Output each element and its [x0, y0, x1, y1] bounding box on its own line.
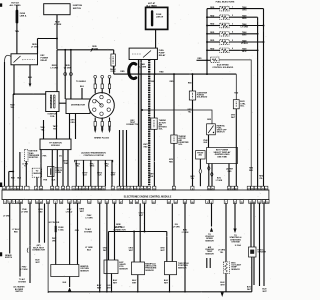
wire MAP ground: [137, 275, 139, 292]
svg-text:SHIELD: SHIELD: [33, 173, 41, 175]
svg-text:RED: RED: [210, 49, 215, 51]
transmission wire 5: [104, 160, 106, 186]
svg-text:CONTROLS SYSTEM: CONTROLS SYSTEM: [83, 155, 103, 157]
svg-text:RED: RED: [120, 71, 125, 73]
svg-text:LT BLU: LT BLU: [66, 211, 73, 213]
EEC test wire 3: [126, 130, 128, 186]
wire ISC return to bus: [219, 60, 251, 186]
thermactor air diverter solenoid box: [171, 135, 177, 143]
EEC test wire 2: [122, 130, 124, 186]
svg-text:6: 6: [232, 48, 233, 50]
svg-text:SENSOR: SENSOR: [231, 269, 240, 271]
ECM module body: [2, 190, 269, 200]
svg-text:LT GRN: LT GRN: [182, 232, 189, 234]
svg-text:RED: RED: [210, 40, 215, 42]
junction gnd 5: [169, 291, 171, 293]
wire octane to ECM: [199, 159, 201, 186]
capacitor terminal dot: [113, 66, 115, 68]
wire MAP vref: [133, 232, 135, 263]
svg-text:SYSTEM: SYSTEM: [84, 231, 92, 233]
svg-text:TAN: TAN: [15, 30, 20, 33]
shield drain hatched line: [148, 60, 150, 186]
svg-text:BLK: BLK: [80, 86, 85, 88]
fuel injector 2 with wires: [206, 15, 258, 20]
wire EGP ground: [111, 274, 113, 292]
transmission wire 4: [97, 160, 99, 186]
ignition switch box: [44, 4, 70, 15]
wire horiz y38.5 to relay branch: [38, 38, 58, 40]
svg-text:MODULE: MODULE: [51, 145, 60, 147]
svg-text:BLK: BLK: [97, 175, 102, 177]
knock ground wire 1: [251, 257, 253, 292]
wire horiz y49.8 run feed: [57, 49, 114, 51]
wire coil secondary to TFI: [56, 112, 58, 140]
svg-text:LT GRN: LT GRN: [51, 68, 59, 70]
relay coil dotted: [22, 59, 35, 61]
knock ground wire 2: [253, 257, 255, 285]
svg-text:SPARK PLUGS: SPARK PLUGS: [94, 136, 109, 139]
svg-text:DISTRIBUTOR: DISTRIBUTOR: [71, 104, 85, 106]
svg-text:SENSOR: SENSOR: [145, 270, 154, 272]
distributor box: [66, 99, 90, 114]
svg-text:SENSOR: SENSOR: [119, 268, 128, 270]
svg-text:CONTROL SOLENOID: CONTROL SOLENOID: [212, 67, 233, 69]
svg-text:CONN: CONN: [55, 172, 61, 174]
fuel injector 3 with wires: [206, 23, 264, 28]
svg-text:BLK: BLK: [83, 175, 88, 177]
svg-text:SWITCH: SWITCH: [15, 291, 23, 293]
svg-text:RELAY: RELAY: [159, 54, 166, 57]
canister purge feed: [192, 74, 194, 91]
junction ignition feed: [56, 38, 58, 40]
ECT sensor box: [223, 262, 229, 273]
svg-text:TO SHIELD: TO SHIELD: [76, 81, 87, 83]
wire VSS: [211, 203, 213, 226]
junction gnd 2: [106, 291, 108, 293]
ground arrow bottom: [221, 292, 224, 297]
svg-text:ORG: ORG: [242, 9, 247, 11]
wire TPS ground: [169, 275, 171, 292]
svg-text:5 15A: 5 15A: [58, 229, 64, 232]
wire pin drop x8.8: [8, 172, 10, 187]
wire riser x113.7 upper: [113, 50, 115, 54]
spark plug wire top 1: [94, 75, 97, 93]
svg-text:LT GRN: LT GRN: [140, 66, 147, 68]
wire TAN from fuse link to EEC power relay: [16, 24, 18, 54]
svg-text:LT BLU: LT BLU: [241, 43, 249, 45]
injector bank bus 2: [257, 17, 259, 186]
fusible link W bar: [151, 10, 153, 26]
ACT stub 1: [206, 258, 208, 268]
binder mark top-left: [0, 3, 2, 6]
fuel injector 6 with wires: [206, 48, 258, 53]
wire sig return 2: [106, 203, 108, 291]
injector bank bus 1: [263, 9, 265, 187]
wire right pair 2: [263, 203, 265, 286]
spark plug wire top 3: [108, 75, 111, 93]
TPS sensor box: [165, 262, 177, 275]
ground arrow relay: [29, 84, 32, 88]
svg-text:ORG: ORG: [75, 230, 80, 232]
wire EGP vref: [108, 232, 110, 261]
MAP sensor box: [132, 262, 145, 275]
thermactor air bypass feed: [153, 74, 155, 118]
wire pin drop x19.9: [19, 152, 21, 186]
svg-text:2: 2: [232, 15, 233, 17]
inline connector diamond octane: [199, 168, 202, 174]
inertia switch contact: [208, 126, 213, 134]
wire RED/LT GRN drop to EEC relay: [37, 39, 39, 55]
radio capacitor box: [111, 54, 116, 66]
spark plug wire top 2: [101, 75, 104, 93]
capacitor element: [112, 57, 114, 64]
svg-text:LT GRN: LT GRN: [3, 216, 10, 218]
svg-text:RED: RED: [210, 15, 215, 17]
svg-text:LT GRN: LT GRN: [91, 49, 99, 51]
starting system arrow: [233, 229, 236, 234]
svg-text:SWITCH: SWITCH: [217, 132, 225, 134]
wire distributor feed A: [64, 50, 66, 99]
wire HEGO ground out: [69, 277, 71, 288]
svg-text:LINK W: LINK W: [156, 17, 163, 19]
svg-text:ORG: ORG: [52, 240, 57, 242]
svg-text:WHT: WHT: [242, 35, 247, 37]
wire self test 2: [44, 203, 46, 242]
fusible link A: [16, 10, 19, 24]
wire canp sol to ECM: [192, 100, 194, 186]
junction gnd 3: [111, 291, 113, 293]
wire VREF riser: [144, 203, 146, 231]
svg-text:WHT: WHT: [111, 175, 116, 177]
EEC test wire 1: [119, 130, 121, 186]
coil left node wire: [13, 93, 46, 95]
junction gnd 6: [184, 291, 186, 293]
idle speed control solenoid box: [211, 57, 219, 63]
relay contact diagonal: [14, 56, 21, 63]
binder mark mid-left: [0, 183, 2, 188]
wire fuel pump feed to inertia switch: [142, 110, 212, 124]
junction vref riser: [144, 231, 146, 233]
wire right pair 1: [259, 203, 261, 286]
junction ISC feed: [206, 59, 208, 61]
thermactor air bypass solenoid box: [151, 118, 157, 129]
svg-text:CONNECTOR: CONNECTOR: [126, 124, 139, 126]
connector circle on wire A: [64, 73, 67, 76]
connector circle on wire B: [69, 73, 72, 76]
svg-text:RED: RED: [242, 18, 247, 20]
svg-text:RED: RED: [159, 72, 164, 74]
knock sensor element: [250, 250, 254, 254]
EEC power relay box: [11, 54, 38, 65]
TFI output wire 5: [67, 150, 69, 187]
heavy harness line pair: [139, 60, 142, 187]
wire fuel pump relay output drop: [154, 60, 156, 75]
spout jumper bar: [50, 168, 52, 175]
svg-text:ADJ: ADJ: [199, 154, 203, 157]
injector left bus x207: [206, 9, 208, 75]
EGP valve position sensor box: [104, 260, 118, 274]
svg-text:GRN: GRN: [207, 119, 212, 121]
svg-text:MONITOR: MONITOR: [29, 157, 39, 159]
spark plug bottom 1: [94, 118, 96, 134]
transmission wire 2: [83, 160, 85, 186]
transmission wire 3: [90, 160, 92, 186]
wire keypower drop 3: [228, 164, 230, 187]
signal return ground bus: [48, 291, 252, 293]
wire TPS vref: [166, 232, 168, 262]
wire riser x113.7 lower: [113, 66, 115, 74]
svg-text:SENSOR: SENSOR: [178, 267, 187, 269]
svg-text:LT GRN: LT GRN: [216, 180, 223, 182]
wire self test output STI: [47, 203, 49, 293]
wire fuse-link-A top stub: [16, 5, 18, 10]
svg-text:5: 5: [232, 40, 233, 42]
svg-text:COND: COND: [110, 71, 116, 73]
svg-text:RED: RED: [210, 24, 215, 26]
EGR solenoid coil: [235, 102, 237, 107]
junction diverter feed: [173, 73, 175, 75]
junction coil left: [13, 93, 15, 95]
svg-text:SENSOR: SENSOR: [80, 270, 89, 272]
svg-text:LT GRN: LT GRN: [241, 26, 249, 28]
ACT stub 2: [209, 258, 211, 268]
spout check connector box: [48, 167, 55, 177]
ISC solenoid coil: [212, 59, 217, 61]
svg-text:COIL: COIL: [50, 116, 56, 118]
wire diverter sol to ECM: [173, 143, 175, 186]
wire shield box drop: [36, 177, 38, 186]
wire left branch horiz: [9, 171, 13, 173]
svg-text:ORG: ORG: [90, 166, 95, 168]
fuel injector 1 with wires: [207, 6, 264, 11]
TFI output wire 2: [51, 150, 53, 187]
wire from fuse box to fuel pump relay: [155, 29, 157, 48]
svg-text:FUEL INJECTORS: FUEL INJECTORS: [216, 2, 235, 4]
fuse box heavy border: [146, 7, 168, 29]
fuel pump relay coil dotted: [132, 53, 141, 55]
svg-text:SENSOR: SENSOR: [205, 240, 214, 242]
connector C blob: [129, 63, 136, 78]
canister purge solenoid box: [189, 91, 195, 100]
junction gnd 4: [137, 291, 139, 293]
wire VPWR corner to EGR: [235, 74, 237, 100]
svg-text:CONNECTOR: CONNECTOR: [32, 250, 45, 252]
splice symbol on run feed: [91, 48, 94, 51]
thermactor diverter feed: [173, 74, 175, 135]
svg-text:LT GRN: LT GRN: [173, 226, 180, 228]
TFI output wire 3: [56, 150, 58, 187]
svg-text:LT GRN: LT GRN: [54, 24, 62, 26]
wire ECT ground: [225, 273, 227, 292]
svg-text:SWITCH: SWITCH: [73, 8, 82, 10]
diverter solenoid coil: [173, 137, 175, 142]
wire relay ground: [29, 65, 31, 84]
wire sig return 1: [99, 203, 101, 291]
wire RED/LT GRN from ignition switch: [56, 15, 58, 50]
coil HT lead to distributor: [59, 102, 66, 104]
wire keypower drop 2: [211, 164, 213, 187]
distributor IDM wire: [75, 114, 77, 140]
svg-text:SOLENOID: SOLENOID: [197, 97, 208, 99]
svg-text:ONE TIME: ONE TIME: [217, 157, 227, 159]
fuel pump relay box: [129, 48, 157, 59]
wire relay loop to left bus: [5, 55, 12, 62]
distributor PIP wire to TFI: [69, 114, 71, 140]
svg-text:LT GRN: LT GRN: [115, 226, 122, 228]
VPWR bus y74: [114, 73, 237, 75]
key power connector box: [207, 148, 238, 164]
wire inertia to fuel pump: [208, 135, 210, 148]
VSS arrow: [210, 227, 213, 232]
svg-text:LT GRN: LT GRN: [31, 47, 39, 49]
wire self test 1: [38, 203, 40, 242]
inertia switch terminal: [213, 132, 214, 133]
diag monitor dashed box: [25, 149, 28, 161]
transmission wire 6: [111, 160, 113, 186]
svg-text:RED: RED: [210, 7, 215, 9]
wire brake switch: [9, 203, 11, 253]
wire RED to ISC solenoid: [197, 59, 211, 61]
wire HEGO ground in: [77, 203, 79, 264]
wire left bus x4.5 down to ECM: [4, 62, 6, 186]
fuel injector 4 with wires: [206, 31, 258, 37]
spark plug bottom 2: [101, 118, 103, 134]
junction relay drop: [154, 73, 156, 75]
fuel pump relay contact: [143, 51, 151, 58]
wire EGP signal: [114, 203, 116, 260]
svg-text:LT GRN: LT GRN: [86, 217, 94, 219]
wire x185 ground: [184, 203, 186, 291]
wire AC clutch: [19, 203, 21, 276]
wire blower switch: [29, 203, 31, 283]
junction fuel pump feed: [141, 109, 143, 111]
junction run feed left: [64, 49, 66, 51]
svg-text:RELAY: RELAY: [41, 59, 48, 62]
ECT thermistor zigzag: [225, 263, 228, 272]
junction tanyel: [12, 171, 14, 173]
svg-text:ELECTRONIC ENGINE CONTROL MODU: ELECTRONIC ENGINE CONTROL MODULE: [124, 196, 172, 198]
TFI output wire 1: [40, 150, 42, 187]
svg-text:BLK: BLK: [87, 249, 92, 251]
distributor cap terminals and rotor: [93, 95, 111, 115]
canp solenoid coil: [192, 93, 194, 98]
svg-text:RED: RED: [14, 231, 19, 233]
wire HEGO signal: [69, 203, 71, 264]
knock sensor wire 2: [253, 203, 255, 247]
spark plug bottom 3: [108, 118, 110, 134]
svg-text:LT GRN: LT GRN: [21, 269, 28, 271]
svg-text:ALL TIMES: ALL TIMES: [10, 4, 22, 7]
wire diag monitor drop 1: [25, 161, 27, 186]
fuse 5 link: [55, 225, 57, 232]
wire fuse to HEGO heater: [55, 203, 57, 225]
TFI output wire 4: [62, 150, 64, 187]
wire distributor feed B: [70, 50, 72, 99]
svg-text:SENSOR: SENSOR: [258, 252, 267, 254]
svg-text:RED: RED: [198, 58, 203, 60]
svg-text:HOT IN RUN: HOT IN RUN: [49, 222, 60, 224]
svg-text:SENSOR: SENSOR: [205, 253, 214, 255]
ignition coil box: [46, 92, 59, 112]
svg-text:BLK: BLK: [28, 77, 33, 79]
distributor cap circle: [89, 93, 115, 119]
svg-text:SWITCH: SWITCH: [5, 257, 13, 259]
svg-text:RED: RED: [210, 32, 215, 34]
junction canp feed: [192, 73, 194, 75]
junction vref map: [133, 231, 135, 233]
self test bracket: [27, 248, 28, 253]
EGR control solenoid box: [233, 100, 239, 109]
wire ECT feed: [225, 203, 227, 262]
svg-text:SYSTEM: SYSTEM: [18, 281, 26, 283]
HEGO ground arrow: [68, 287, 72, 292]
junction gnd 1: [99, 291, 101, 293]
junction injector bus to VPWR: [206, 73, 208, 75]
binder mark bottom-left: [0, 252, 2, 256]
svg-text:TAN: TAN: [150, 80, 154, 83]
svg-text:LINK A: LINK A: [20, 15, 27, 18]
ECM top pin row: [2, 186, 268, 190]
wire TPS signal: [171, 203, 173, 261]
svg-text:HOT AT: HOT AT: [11, 2, 19, 5]
svg-text:SYSTEM: SYSTEM: [231, 241, 240, 243]
wire EGR sol to ECM: [235, 109, 237, 186]
svg-text:LT GRN: LT GRN: [64, 68, 72, 70]
junction run feed right: [70, 49, 72, 51]
svg-text:BLU: BLU: [242, 51, 247, 53]
knock sensor box: [249, 247, 257, 257]
wire bypass sol to ECM: [153, 129, 155, 186]
coil primary winding: [50, 95, 51, 108]
svg-text:1: 1: [232, 6, 233, 8]
svg-text:S-110A: S-110A: [235, 244, 242, 247]
coil secondary winding: [54, 95, 55, 108]
bypass solenoid coil: [153, 120, 155, 127]
octane adjust box: [196, 151, 206, 159]
transmission wire 1: [75, 160, 77, 186]
svg-text:ORG: ORG: [70, 122, 75, 124]
inertia fuel shutoff switch box: [207, 124, 216, 135]
wire shield stub: [81, 88, 83, 99]
inline connector diamond 2: [211, 172, 214, 178]
knock sensor wire 1: [250, 203, 252, 247]
wire coil feed: [56, 50, 58, 92]
transmission bracket line: [75, 160, 113, 162]
ECM bottom pin row: [3, 200, 269, 204]
TFI feed wire: [43, 120, 45, 139]
svg-text:3: 3: [232, 23, 233, 25]
heated oxygen sensor box: [51, 265, 79, 277]
fuel injector 5 with wires: [206, 39, 264, 44]
shield dashed box: [32, 168, 42, 177]
wire keypower drop 1: [208, 164, 210, 187]
wire MAP signal: [139, 203, 141, 262]
wire fuse to HEGO heater lower: [55, 233, 57, 265]
wire relay out to coil-left node: [13, 65, 15, 94]
wire to starting system: [234, 203, 236, 228]
VREF bus: [109, 231, 167, 233]
wire TAN/YEL down left: [12, 94, 14, 186]
inline connector diamond 1: [208, 166, 211, 172]
TFI ignition module box: [40, 139, 71, 150]
